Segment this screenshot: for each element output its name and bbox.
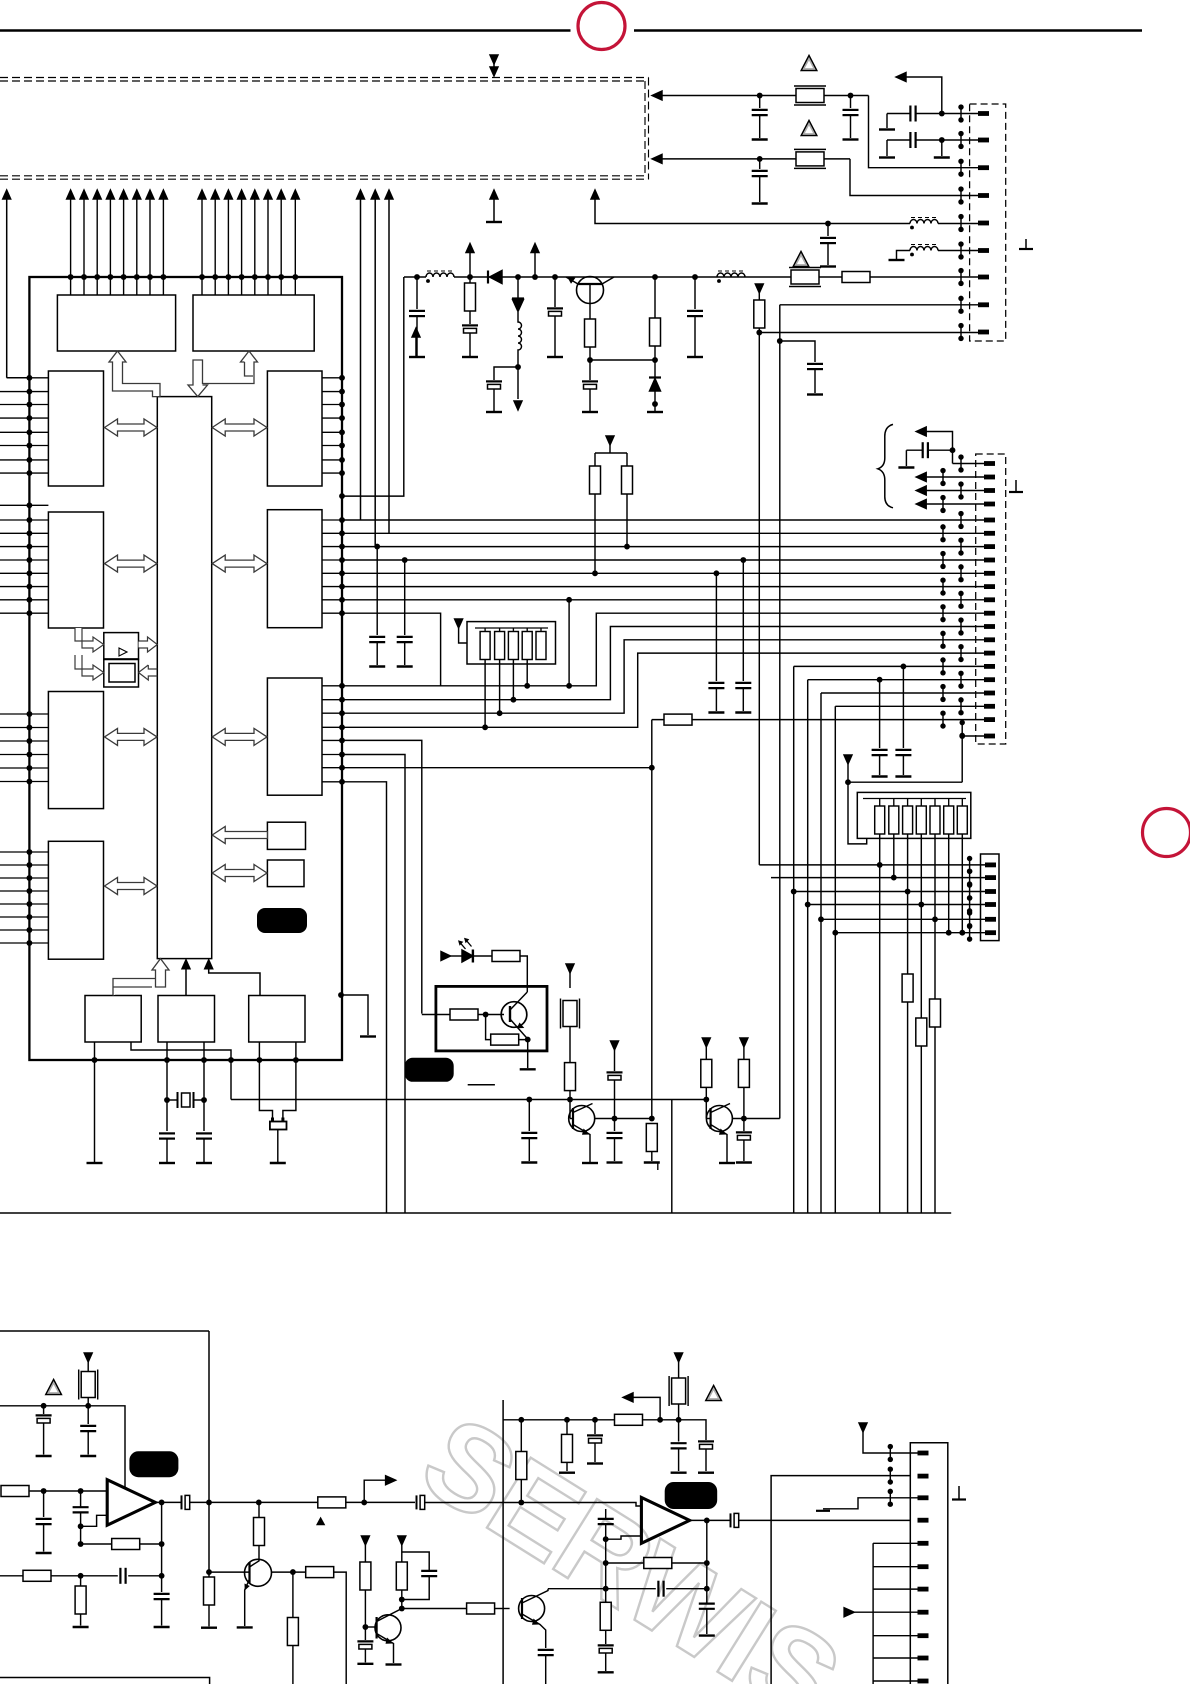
row2 wire — [652, 154, 662, 163]
resistor R43 — [565, 1063, 576, 1091]
resistor R59 — [204, 1577, 215, 1605]
bus lower M7 — [342, 767, 652, 769]
bus lower M2 — [342, 627, 984, 700]
IC left pin rows block B — [0, 520, 48, 613]
wire to pin3 — [869, 96, 979, 168]
bypass capacitor C35 — [877, 678, 881, 682]
series capacitor C24 — [887, 139, 978, 141]
resistor pack RP2 — [857, 792, 971, 838]
pull-up resistor R32 — [916, 1018, 927, 1046]
crystal X1 leads — [94, 1042, 96, 1162]
top border rule right — [634, 29, 1142, 32]
resistor R10 — [469, 277, 471, 284]
IC bottom box 2 — [158, 996, 215, 1043]
IC left pin rows block C — [0, 714, 48, 782]
signal marker — [316, 1517, 325, 1526]
capacitor C40 — [528, 1100, 530, 1132]
resistor R60 — [520, 1420, 522, 1452]
IC right block C2 — [267, 678, 322, 795]
IC left block A — [48, 371, 103, 486]
pull-up resistor R31 — [930, 999, 941, 1027]
supply rail wire — [404, 276, 426, 278]
capacitor C10 — [415, 275, 419, 279]
LED series resistor R40 — [473, 955, 492, 957]
IC bidirectional bus arrows — [105, 419, 268, 895]
capacitor C60 — [594, 1420, 596, 1434]
wire arrow to bus line 1 — [360, 192, 362, 520]
supply arrow up — [469, 252, 471, 277]
warning triangle 3 — [793, 252, 809, 267]
capacitor C54 — [161, 1576, 163, 1592]
IC left pin rows block A — [0, 378, 48, 473]
divider resistor R55 — [292, 1572, 294, 1617]
capacitor C22 — [758, 157, 762, 161]
Q5 collector row — [400, 1606, 404, 1610]
electrolytic C14 — [582, 381, 598, 389]
pin2 stub arrow — [924, 476, 984, 478]
bus line L7 — [342, 599, 984, 601]
inductor L5 — [910, 218, 938, 229]
IC internal box T1 — [57, 295, 175, 351]
riser pin18 — [821, 693, 984, 1213]
ladder rail — [872, 1543, 874, 1684]
output branch arrow — [364, 1480, 388, 1502]
row6 ground coil — [897, 251, 911, 260]
capacitor C61 — [678, 1420, 680, 1442]
IC left block B — [48, 512, 103, 628]
ceramic resonator — [270, 1122, 287, 1130]
IC small box E — [267, 822, 305, 849]
pin3 ground stub — [823, 1498, 918, 1509]
emitter cap C58 — [538, 1650, 554, 1655]
ground symbol CN4 — [958, 1486, 960, 1499]
inductor L2 vertical — [518, 312, 522, 399]
capacitor C20 — [758, 93, 762, 97]
IC left block D — [48, 841, 103, 959]
wire to pin4 — [850, 159, 978, 196]
op-amp2 rail — [503, 1420, 706, 1440]
section bus ground line — [0, 1212, 951, 1214]
bus arrows group 2 into module — [202, 192, 295, 295]
warning triangle audio2 — [706, 1386, 722, 1401]
black arrow into core bottom 2 — [209, 961, 260, 996]
IC right block B2 — [267, 510, 322, 628]
page reference circle right — [1143, 809, 1190, 857]
IC left pin rows block D — [0, 852, 48, 943]
page reference circle top — [578, 3, 625, 50]
input network chain — [605, 1509, 607, 1519]
resistor R42 — [486, 1015, 491, 1040]
compensation cap C57 — [402, 1552, 429, 1570]
bus arrows group 1 into module — [71, 192, 164, 295]
Q2 collector wire — [595, 1118, 652, 1120]
output section box — [771, 1476, 910, 1684]
row5 IF wire — [828, 223, 910, 225]
zener D2 chain — [516, 275, 520, 279]
redacted label audio1 — [129, 1451, 178, 1477]
IC bottom junction to bus wire — [131, 1042, 231, 1100]
IC top transfer arrows — [109, 351, 258, 397]
supply filter FB5 — [84, 1353, 92, 1362]
transistor Q7 — [519, 1596, 545, 1622]
bypass capacitor C32 — [714, 571, 718, 575]
Q4 collector row — [272, 1571, 306, 1573]
capacitor C42 — [614, 1119, 616, 1132]
row8 wire — [780, 304, 978, 306]
IC right pin rows block A2 — [322, 378, 342, 473]
pack RP2 leads to rows — [879, 834, 881, 1213]
brace selector — [878, 424, 893, 507]
IC internal box T2 — [193, 295, 314, 351]
IR receiver LED — [441, 952, 451, 961]
Q3 base resistor R45 — [702, 1038, 710, 1047]
pull-up resistor R30 — [902, 974, 913, 1002]
ground symbol CN1 — [1025, 239, 1027, 249]
capacitor C62 — [698, 1441, 714, 1449]
capacitor C30 — [375, 544, 379, 548]
redacted label opto — [405, 1058, 454, 1082]
keyboard row 2 — [771, 877, 985, 879]
base bypass C56 — [364, 1627, 366, 1640]
keyboard row 6 — [835, 932, 985, 934]
riser pin19 — [835, 706, 984, 1213]
riser to L7 — [568, 600, 570, 686]
redacted label audio2 — [665, 1482, 718, 1509]
warning triangle 1 — [801, 56, 817, 71]
zener D3 — [649, 376, 661, 378]
capacitor C31 — [403, 558, 407, 562]
resistor pack RP1 — [467, 622, 556, 664]
collector resistor R46 — [740, 1038, 748, 1047]
IC PLL sub-block 1 — [104, 633, 139, 659]
Q3 collector wire — [732, 1118, 779, 1120]
resistor R12 — [653, 275, 657, 279]
pin1 stub with coupling cap — [906, 450, 984, 466]
transistor Q1 regulator — [577, 277, 604, 304]
wire left edge arrow into module — [6, 192, 8, 378]
IC bottom box 3 — [249, 996, 305, 1043]
bus line L2 — [342, 532, 984, 534]
electrolytic C43 — [743, 1119, 745, 1132]
inductor L3 — [717, 271, 745, 282]
input arrow marker — [844, 1608, 854, 1617]
pin3 stub arrow — [924, 490, 984, 492]
IC PLL sub-block 2 — [104, 660, 139, 688]
connector CN4 — [910, 1443, 948, 1684]
IC right block A2 — [267, 371, 322, 486]
bypass capacitor C34 — [901, 664, 905, 668]
IC bottom ground stub — [342, 995, 368, 1035]
dashed module box top-left — [0, 78, 649, 180]
divider resistors R20 R21 — [606, 436, 614, 445]
resistor R41 — [450, 1009, 478, 1020]
transistor Q5 — [365, 1626, 376, 1628]
row9 supply resistor R14 — [755, 284, 763, 293]
bus line L5 — [342, 572, 984, 574]
fusible filter FB3 — [789, 268, 821, 287]
inductor L1 — [426, 271, 454, 282]
op-amp U2 — [107, 1480, 155, 1526]
control wire — [231, 1099, 706, 1101]
capacitor C50 — [43, 1406, 45, 1414]
electrolytic C12 — [494, 367, 518, 380]
resistor R52 — [80, 1576, 82, 1586]
IC redacted label — [257, 908, 307, 933]
capacitor C51 — [87, 1406, 89, 1424]
pin4 stub arrow — [924, 503, 984, 505]
resistor R11 — [589, 303, 591, 319]
transistor Q3 — [705, 1100, 707, 1119]
keyboard row 5 — [821, 918, 985, 920]
resistor R44 — [646, 1124, 657, 1152]
supply marker cap C41 — [611, 1041, 619, 1050]
audio supply rail — [0, 1406, 125, 1488]
electrolytic C11 — [462, 325, 478, 333]
bus lower M5 to opto — [342, 740, 422, 1013]
lower input row — [0, 1575, 23, 1577]
resistor R13 — [842, 272, 870, 283]
input resistor R50 — [1, 1486, 29, 1497]
series resistor R53 — [318, 1497, 346, 1508]
fusible filter FB1 — [794, 86, 826, 105]
capacitor C15 — [693, 275, 697, 279]
coupling cap C55 — [417, 1495, 425, 1509]
keyboard row 4 — [808, 904, 985, 906]
feedback resistor R51 — [159, 1500, 163, 1504]
supply branch filter FB4 — [566, 964, 574, 973]
arrow into module box top — [493, 57, 495, 75]
transistor Q2 — [569, 1100, 571, 1119]
diode D1 — [487, 271, 489, 284]
keyboard row 1 — [759, 864, 985, 866]
op-amp U3 — [641, 1498, 689, 1544]
resistor R62 — [600, 1602, 611, 1630]
IC left block C — [48, 692, 103, 809]
transistor Q4 — [207, 1570, 211, 1574]
riser pin17 — [808, 680, 984, 1213]
IC central core block — [157, 397, 211, 959]
IC small box F — [267, 860, 304, 887]
bus lower M4 — [342, 653, 984, 727]
bus line L4 — [342, 559, 984, 561]
wire to ground bus — [671, 1100, 673, 1214]
riser pin16 — [794, 666, 984, 1213]
audio section border — [0, 1331, 210, 1684]
warning triangle 2 — [801, 121, 817, 136]
resistor R22 row pin20 — [652, 719, 984, 721]
inductor L6 — [910, 245, 938, 256]
top border rule left — [0, 29, 571, 32]
ground symbol CN2 — [1015, 480, 1017, 492]
IC U1 main block outline — [29, 277, 342, 1060]
bus lower M8 — [342, 782, 387, 1213]
capacitor C53 input pair — [80, 1491, 82, 1507]
series capacitor C23 — [887, 113, 978, 115]
crystal X1 — [167, 1099, 178, 1101]
bus line L1 — [342, 519, 984, 521]
IC bottom box 1 — [85, 996, 141, 1043]
feedback vertical — [706, 1520, 708, 1602]
ceramic resonator leads — [259, 1042, 296, 1118]
capacitor C21 — [848, 93, 852, 97]
riser pin21 with supply feed — [848, 736, 984, 844]
fusible filter FB2 — [794, 149, 826, 168]
stub arrow with ground — [493, 192, 495, 221]
row9 wire — [759, 332, 978, 334]
audio output line — [155, 1501, 181, 1503]
wire arrow to bus line 2 — [388, 192, 390, 533]
warning triangle audio — [46, 1380, 62, 1395]
connector CN2 — [976, 454, 1006, 744]
arrow to tuner AGC — [940, 111, 944, 115]
connector CN1 — [970, 104, 1006, 341]
arrow wire to connector row 5 — [595, 192, 828, 224]
floating signal arrow — [415, 330, 417, 357]
connector CN3 — [981, 854, 1000, 941]
black arrow into core bottom 1 — [185, 961, 187, 996]
capacitor C13 — [553, 275, 557, 279]
transistor Q10 — [501, 1002, 527, 1028]
IC power return wire — [342, 277, 404, 496]
base resistor R58 — [467, 1603, 495, 1614]
bias resistor R56 — [361, 1536, 369, 1545]
capacitor C52 — [43, 1491, 45, 1517]
bus line L3 — [342, 546, 984, 548]
IC right pin stubs block C2 — [322, 686, 342, 782]
IC right pin stubs block B2 — [322, 520, 342, 613]
photo transistor box — [436, 986, 547, 1051]
supply arrow up 2 — [534, 252, 536, 277]
keyboard row 3 — [794, 891, 985, 893]
pin1 supply — [859, 1423, 867, 1432]
IC left pin row solo — [0, 504, 48, 506]
wire arrow to bus line 3 — [374, 192, 376, 547]
bus lower M6 — [342, 755, 405, 1214]
row1 wire tuner out — [652, 91, 662, 100]
pack RP1 leads — [484, 660, 486, 728]
crystal load capacitor C2 — [196, 1133, 212, 1138]
supply filter FB6 — [675, 1353, 683, 1362]
feedback row — [548, 1588, 707, 1590]
bias resistor R57 — [398, 1536, 406, 1545]
collector resistor R54 — [254, 1518, 265, 1546]
resistor R61 — [566, 1420, 568, 1435]
bus line L8 with jog — [342, 613, 984, 686]
feedback resistor R63 — [606, 1562, 644, 1564]
bus line L6 — [342, 586, 984, 588]
crystal load capacitor C1 — [159, 1133, 175, 1138]
arrow to supply — [631, 1397, 660, 1419]
section divider — [502, 1400, 504, 1684]
IC PLL transfer arrows — [75, 628, 157, 680]
bus lower M3 — [342, 640, 984, 713]
op-amp2 output — [690, 1519, 731, 1521]
RC snubber row8 — [780, 341, 815, 362]
bypass capacitor C33 — [741, 558, 745, 562]
